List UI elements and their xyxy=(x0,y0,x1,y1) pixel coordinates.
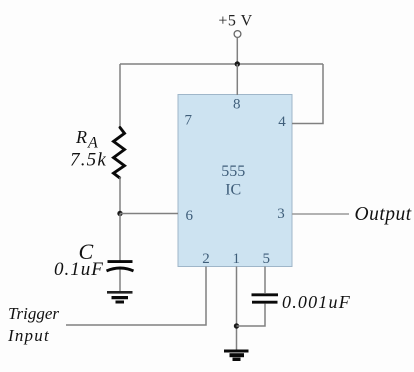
wire +5V stub down xyxy=(236,38,238,65)
wire pin 3 to output xyxy=(292,213,349,215)
node A junction xyxy=(117,211,122,216)
svg-text:2: 2 xyxy=(202,251,210,267)
svg-text:Trigger: Trigger xyxy=(8,304,59,323)
svg-text:1: 1 xyxy=(232,251,240,267)
svg-text:Input: Input xyxy=(7,326,50,345)
wire pin 1 down to ground xyxy=(236,267,238,350)
resistor RA xyxy=(114,128,125,178)
node top junction xyxy=(235,61,240,66)
svg-text:Output: Output xyxy=(355,204,412,225)
capacitor C xyxy=(107,262,134,271)
ground (bottom) xyxy=(224,351,249,359)
svg-text:4: 4 xyxy=(278,114,286,130)
wire node A to pin 6 xyxy=(120,213,178,215)
wire top horizontal xyxy=(120,63,323,65)
svg-text:5: 5 xyxy=(262,251,270,267)
ground (left) xyxy=(107,292,133,302)
wire left vertical to resistor xyxy=(119,64,121,128)
svg-text:6: 6 xyxy=(185,208,193,224)
wire capacitor C to ground xyxy=(119,270,121,292)
node bottom junction xyxy=(234,323,239,328)
wire right vertical to pin 4 xyxy=(292,64,323,124)
IC U1 555 body xyxy=(178,95,292,267)
svg-text:555: 555 xyxy=(221,163,245,180)
power +5V terminal circle xyxy=(234,31,241,38)
capacitor C2 0.001uF xyxy=(252,295,279,302)
svg-text:8: 8 xyxy=(233,97,241,113)
wire pin 5 down to capacitor xyxy=(264,267,266,294)
svg-text:3: 3 xyxy=(277,206,285,222)
wire junction to pin 8 xyxy=(236,64,238,95)
svg-text:7: 7 xyxy=(185,113,193,129)
svg-text:0.1uF: 0.1uF xyxy=(54,259,104,280)
wire pin 2 down and left (trigger) xyxy=(66,267,206,326)
svg-text:7.5k: 7.5k xyxy=(70,149,107,170)
svg-text:+5 V: +5 V xyxy=(218,13,252,30)
svg-text:0.001uF: 0.001uF xyxy=(282,292,351,312)
wire resistor to node A xyxy=(119,177,121,214)
wire node A down to capacitor C xyxy=(119,214,121,261)
svg-text:IC: IC xyxy=(225,182,241,199)
wire capacitor C2 to bottom junction xyxy=(237,304,266,327)
